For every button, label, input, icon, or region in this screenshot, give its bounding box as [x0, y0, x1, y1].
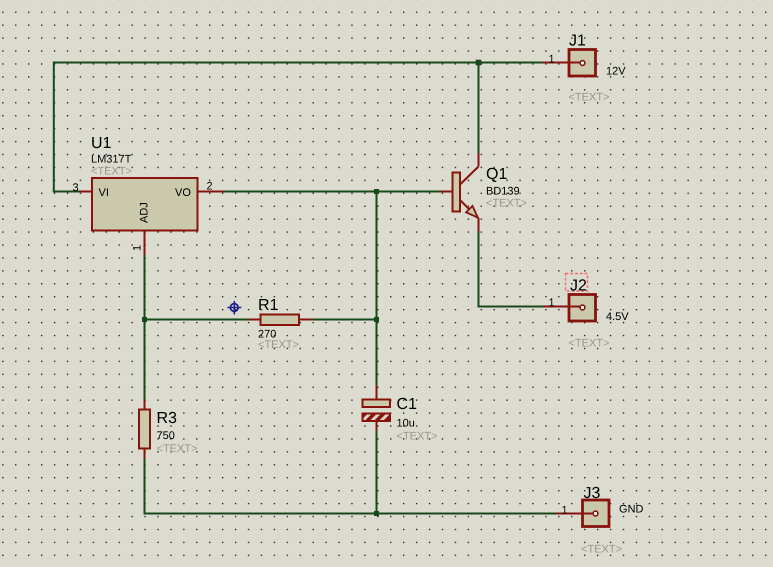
U1 pin VI stub	[80, 191, 92, 193]
wire ADJ node to R1 left	[145, 319, 250, 321]
J2 pin number 1	[549, 298, 554, 306]
U1 pin number 3	[73, 183, 78, 191]
R1 left lead	[249, 319, 260, 321]
C1 value label 10u	[397, 419, 414, 427]
Q1 collector diagonal	[460, 167, 479, 186]
regulator U1 body	[92, 178, 198, 231]
connector J1 body	[569, 50, 596, 77]
capacitor C1 bottom plate (hatched, polarized)	[363, 414, 391, 422]
Q1 base lead	[440, 191, 452, 193]
U1 pin number 1	[133, 245, 141, 250]
J1 net label 12V	[607, 67, 626, 75]
J1 pin lead	[543, 62, 581, 64]
origin marker (blue crosshair)	[228, 301, 242, 315]
Q1 emitter vertical stub	[478, 218, 480, 232]
wire vertical VO node down to C1	[376, 192, 378, 387]
wire C1 bottom to ground rail	[376, 430, 378, 514]
J2 property placeholder	[569, 339, 609, 347]
U1 pin name ADJ	[140, 203, 148, 223]
U1 pin VO stub	[199, 191, 225, 193]
junction dot at collector/12V rail	[476, 60, 482, 66]
R1 property placeholder	[259, 340, 299, 348]
wire R1 right to output node	[312, 319, 377, 321]
J3 pin lead	[556, 513, 594, 515]
U1 pin number 2	[207, 182, 212, 190]
R3 reference label	[158, 412, 176, 423]
wire ground rail bottom horizontal	[144, 513, 561, 515]
junction dot at ground rail / C1	[374, 511, 379, 516]
R3 value label 750	[157, 431, 174, 439]
connector J3 body	[583, 500, 610, 527]
C1 bottom lead	[376, 422, 378, 431]
R3 bottom lead	[144, 449, 146, 459]
U1 reference label	[92, 137, 111, 148]
wire VI pin row	[53, 191, 80, 193]
J1 property placeholder	[569, 93, 609, 101]
U1 pin name VI	[99, 188, 108, 196]
C1 reference label	[397, 398, 416, 409]
junction dot at VO node	[374, 189, 379, 194]
R1 right lead	[299, 319, 313, 321]
R3 property placeholder	[157, 444, 197, 452]
J2 net label 4.5V	[606, 312, 628, 320]
transistor Q1 base bar	[453, 173, 461, 212]
connector J2 body	[569, 295, 596, 322]
wire ADJ node vertical to R3 top	[144, 254, 146, 400]
J2 pin lead	[544, 306, 582, 308]
junction dot at R1/output node	[374, 317, 379, 322]
J3 pad circle	[593, 511, 598, 516]
capacitor C1 top plate	[363, 400, 391, 408]
wire Q1 emitter down and right to J2	[479, 231, 544, 307]
J3 net label GND	[620, 505, 643, 513]
U1 property placeholder	[92, 167, 132, 175]
J3 pin number 1	[562, 506, 567, 514]
J1 reference label	[569, 35, 585, 46]
C1 top lead	[376, 386, 378, 400]
resistor R3 body	[139, 410, 150, 449]
wire VO to Q1 base	[224, 191, 441, 193]
Q1 reference label	[487, 168, 507, 182]
R1 reference label	[259, 299, 277, 310]
resistor R1 body	[261, 315, 300, 326]
R3 top lead	[144, 400, 146, 410]
U1 pin name VO	[175, 188, 190, 196]
junction dot at ADJ/R1 node	[142, 317, 147, 322]
C1 property placeholder	[397, 432, 437, 440]
R1 value label 270	[259, 330, 276, 338]
J1 pad circle	[580, 61, 585, 66]
wire Q1 collector to 12V rail	[478, 63, 480, 154]
Q1 value label BD139	[487, 187, 519, 195]
J2 pad circle	[580, 305, 585, 310]
J3 reference label	[584, 487, 600, 498]
Q1 emitter arrow	[466, 206, 478, 218]
U1 value label LM317T	[92, 155, 131, 163]
J2 selection box (dashed)	[566, 274, 588, 292]
U1 pin ADJ stub	[144, 232, 146, 255]
J1 pin number 1	[549, 55, 554, 63]
Q1 emitter diagonal	[460, 200, 479, 219]
wire from input node to U1 VI (left vertical + top horizontal)	[54, 63, 543, 192]
Q1 collector vertical stub	[478, 153, 480, 167]
wire R3 bottom to ground rail	[144, 458, 146, 515]
Q1 property placeholder	[487, 199, 527, 207]
J2 reference label	[570, 279, 586, 290]
J3 property placeholder	[582, 545, 622, 553]
